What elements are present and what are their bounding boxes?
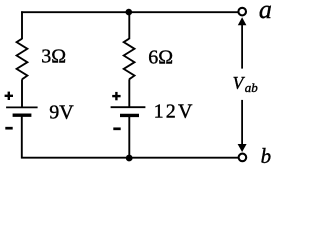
label Vab <box>233 73 259 95</box>
battery V2 long plate <box>111 106 146 108</box>
wire left branch upper <box>21 11 23 39</box>
wire top horizontal <box>21 11 238 13</box>
node junction dot bottom <box>126 155 133 162</box>
battery V1 minus sign <box>5 127 12 130</box>
arrow down toward b <box>238 100 247 152</box>
svg-text:a: a <box>259 0 272 24</box>
svg-text:9V: 9V <box>49 101 74 123</box>
svg-text:V: V <box>233 73 246 93</box>
svg-text:12V: 12V <box>154 101 195 123</box>
node junction dot top <box>126 9 133 16</box>
terminal a circle <box>238 8 246 16</box>
wire left branch lower <box>21 115 23 158</box>
resistor R2 6ohm zigzag <box>124 39 135 80</box>
battery V1 plus sign <box>5 92 13 100</box>
wire middle branch lower <box>128 115 130 157</box>
battery V2 short plate <box>120 114 139 117</box>
battery V1 short plate <box>13 113 32 116</box>
arrow up toward a <box>238 17 247 68</box>
battery V2 plus sign <box>112 92 120 100</box>
svg-text:b: b <box>261 144 272 168</box>
battery V2 minus sign <box>113 127 120 130</box>
battery V1 long plate <box>6 106 37 108</box>
terminal b circle <box>239 154 247 162</box>
wire middle branch mid <box>128 79 130 107</box>
wire middle branch upper <box>128 12 130 39</box>
svg-text:3Ω: 3Ω <box>41 46 66 68</box>
resistor R1 3ohm zigzag <box>17 39 28 80</box>
svg-text:ab: ab <box>245 80 258 95</box>
svg-text:6Ω: 6Ω <box>148 46 173 68</box>
wire bottom horizontal <box>21 157 238 159</box>
wire left branch mid <box>21 79 23 107</box>
